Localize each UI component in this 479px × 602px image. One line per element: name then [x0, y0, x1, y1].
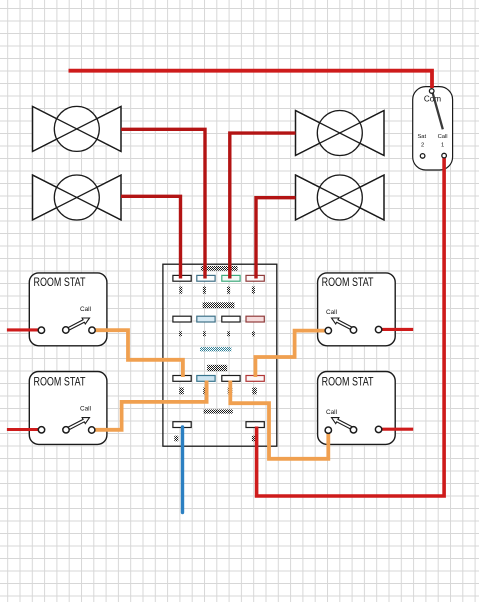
- svg-text:ROOM STAT: ROOM STAT: [34, 376, 86, 388]
- svg-text:Call: Call: [80, 306, 91, 313]
- svg-text:Call: Call: [326, 309, 337, 316]
- svg-text:1: 1: [441, 142, 444, 148]
- svg-text:Call: Call: [80, 405, 91, 412]
- svg-text:Call: Call: [438, 134, 448, 140]
- svg-text:Call: Call: [326, 409, 337, 416]
- svg-text:ROOM STAT: ROOM STAT: [322, 376, 374, 388]
- svg-text:2: 2: [421, 142, 424, 148]
- svg-text:ROOM STAT: ROOM STAT: [322, 277, 374, 289]
- svg-text:Sat: Sat: [417, 134, 426, 140]
- svg-text:ROOM STAT: ROOM STAT: [34, 277, 86, 289]
